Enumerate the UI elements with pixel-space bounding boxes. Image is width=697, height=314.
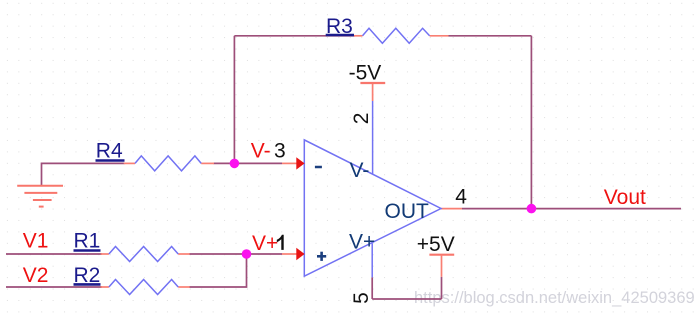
svg-text:V-: V- bbox=[251, 140, 271, 163]
wire: R2 up to V+ junction bbox=[189, 254, 247, 287]
svg-text:V+: V+ bbox=[252, 232, 278, 255]
resistor R4 bbox=[96, 140, 215, 171]
wire: R4 to V- junction bbox=[214, 162, 235, 164]
op-amp plus input mark bbox=[317, 252, 326, 261]
svg-text:V1: V1 bbox=[23, 230, 49, 253]
svg-text:3: 3 bbox=[274, 140, 286, 163]
power port -5V bbox=[349, 62, 386, 85]
wire: ground to R4 bbox=[42, 163, 125, 185]
junction at V+ node bbox=[242, 249, 252, 259]
svg-text:Vout: Vout bbox=[604, 186, 646, 209]
junction at V- node bbox=[230, 159, 240, 169]
pin arrow V- input bbox=[296, 157, 304, 169]
wire: feedback left vertical, V- junction up to top rail bbox=[233, 36, 235, 164]
op-amp minus input mark bbox=[315, 166, 322, 169]
svg-text:V+: V+ bbox=[349, 230, 375, 253]
wire: op-amp output pin 4 to Vout right edge bbox=[441, 208, 681, 210]
wire: R1 to V+ junction bbox=[189, 253, 247, 255]
svg-text:-5V: -5V bbox=[349, 62, 382, 85]
svg-text:+5V: +5V bbox=[417, 233, 455, 256]
svg-text:R1: R1 bbox=[74, 230, 101, 253]
wire: V+ junction to op-amp V+ pin bbox=[247, 253, 298, 255]
svg-text:4: 4 bbox=[455, 186, 467, 209]
wire: V1 input to R1 bbox=[6, 253, 102, 255]
pin 2 line bbox=[372, 84, 374, 174]
wire: V- junction to op-amp V- pin bbox=[234, 162, 297, 164]
resistor R1 bbox=[74, 230, 190, 262]
pin arrow V+ input bbox=[296, 248, 304, 260]
svg-text:OUT: OUT bbox=[385, 200, 430, 223]
svg-text:5: 5 bbox=[350, 292, 373, 304]
wire: feedback right vertical down to output junction bbox=[530, 36, 532, 209]
svg-text:V2: V2 bbox=[23, 264, 49, 287]
resistor R3 bbox=[326, 15, 449, 43]
junction at output node bbox=[527, 204, 537, 214]
wire: R3 to right vertical bbox=[449, 35, 532, 37]
wire: top rail left segment to R3 bbox=[234, 35, 355, 37]
pin number 1 bbox=[277, 235, 284, 250]
op-amp U1 body bbox=[304, 140, 441, 276]
wire: pin 5 to +5V bbox=[372, 277, 441, 299]
svg-text:2: 2 bbox=[350, 113, 373, 125]
wire: V2 input to R2 bbox=[6, 286, 102, 288]
resistor R2 bbox=[74, 264, 190, 295]
power port +5V bbox=[417, 233, 455, 277]
svg-text:https://blog.csdn.net/weixin_4: https://blog.csdn.net/weixin_42509369 bbox=[414, 289, 695, 307]
svg-text:V-: V- bbox=[350, 159, 370, 182]
ground bbox=[17, 186, 63, 207]
pin 5 line bbox=[371, 243, 373, 277]
